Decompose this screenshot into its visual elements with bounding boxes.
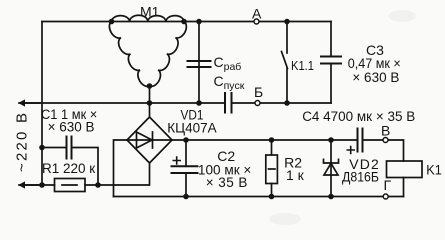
zener VD2 cathode bar — [324, 159, 339, 163]
wire R1 right to bridge bottom — [85, 163, 150, 185]
wire bridge top lead — [149, 103, 151, 117]
plus sign C4 — [347, 146, 356, 154]
wire C2 leads — [185, 140, 187, 197]
arrow mains bottom — [26, 184, 41, 186]
svg-text:A: A — [252, 6, 262, 22]
junction dot VD2 top — [328, 137, 334, 143]
arrowhead top — [18, 99, 25, 106]
motor M1 winding right — [150, 22, 187, 87]
svg-text:В: В — [381, 123, 390, 139]
junction dot delta top-left — [109, 19, 115, 25]
junction dot R1 right — [95, 182, 101, 188]
wire K1.1 branch top — [286, 22, 288, 54]
switch contact K1.1 — [282, 52, 288, 69]
junction dot C2 top — [183, 137, 189, 143]
wire bridge left to minus rail — [114, 140, 128, 197]
svg-text:R1 220 к: R1 220 к — [42, 161, 95, 176]
capacitor C2 plates — [172, 166, 198, 173]
arrowhead bottom — [18, 181, 25, 188]
capacitor C3 plates — [321, 57, 341, 64]
junction dot R2 bottom — [269, 194, 275, 200]
svg-text:Cпуск: Cпуск — [214, 73, 245, 92]
junction dot bridge top — [147, 100, 153, 106]
junction dot R2 top — [269, 137, 275, 143]
wire K1.1 branch bottom — [286, 69, 288, 104]
capacitor Crab plates — [188, 61, 211, 67]
motor vertex lead — [149, 86, 151, 103]
svg-text:M1: M1 — [140, 4, 160, 20]
junction dot VD2 bottom — [328, 194, 334, 200]
capacitor Cpusk plates — [225, 93, 232, 113]
wire DC plus rail after C4 — [363, 140, 404, 161]
node V (В) — [383, 138, 388, 143]
diode VD1 axis — [127, 139, 172, 141]
wire VD2 lead — [330, 140, 332, 197]
junction dot K1.1 top — [284, 19, 290, 25]
capacitor C4 plates — [358, 129, 363, 152]
junction dot Crab bottom — [196, 100, 202, 106]
svg-text:1 к: 1 к — [286, 167, 305, 183]
wire C1 right branch — [72, 148, 99, 186]
junction dot K1.1 bottom — [284, 100, 290, 106]
diode VD1 triangle — [137, 132, 153, 148]
relay K1 coil — [387, 161, 423, 178]
wire Crab branch — [198, 22, 200, 104]
wire C1 branch — [42, 147, 67, 149]
svg-text:C4 4700 мк × 35 В: C4 4700 мк × 35 В — [302, 109, 415, 124]
wire DC minus rail — [114, 196, 404, 198]
plus sign C2 — [173, 156, 182, 164]
svg-text:K1: K1 — [426, 162, 442, 178]
resistor R1 power dash — [62, 184, 77, 186]
junction dot Crab top — [196, 19, 202, 25]
junction dot C1 left — [39, 145, 45, 151]
junction dot column bottom — [39, 182, 45, 188]
node A — [254, 19, 259, 24]
diode VD1 cathode bar — [152, 132, 154, 148]
node G (Г) — [383, 194, 388, 199]
arrow mains top — [26, 102, 41, 104]
wire relay bottom lead — [403, 178, 405, 197]
svg-text:Д816Б: Д816Б — [342, 169, 379, 185]
wire top rail — [42, 21, 331, 23]
svg-text:~220 В: ~220 В — [14, 113, 31, 172]
resistor R1 — [55, 179, 86, 192]
wire left column — [41, 22, 43, 186]
junction dot delta top-right — [181, 19, 187, 25]
capacitor C1 plates — [67, 137, 72, 159]
faint scan smudges (background) — [269, 10, 416, 225]
wire R2 leads — [271, 140, 273, 197]
svg-text:Г: Г — [384, 177, 392, 193]
wire mains bottom line — [19, 184, 55, 186]
resistor R2 power dash — [269, 168, 276, 170]
junction dot motor vertex — [147, 83, 153, 89]
svg-text:× 630 В: × 630 В — [352, 70, 399, 85]
motor M1 winding top — [112, 15, 185, 21]
svg-text:0,47 мк ×: 0,47 мк × — [348, 56, 401, 71]
wire mains top line — [19, 102, 225, 104]
svg-text:× 35 В: × 35 В — [206, 175, 248, 190]
wire DC plus rail — [172, 139, 357, 141]
zener VD2 triangle — [324, 163, 338, 175]
wire C3 branch — [330, 22, 332, 104]
bridge rectifier VD1 diamond — [127, 117, 172, 163]
svg-text:K1.1: K1.1 — [291, 58, 314, 73]
svg-text:Б: Б — [254, 84, 263, 100]
svg-text:Cраб: Cраб — [214, 54, 242, 73]
resistor R2 — [266, 155, 278, 184]
motor M1 winding left — [109, 22, 149, 87]
junction dot C2 bottom — [183, 194, 189, 200]
svg-text:КЦ407А: КЦ407А — [167, 121, 216, 136]
node B (Б) — [255, 101, 260, 106]
svg-text:× 630 В: × 630 В — [48, 120, 95, 135]
wire mains top line right part — [232, 102, 331, 104]
